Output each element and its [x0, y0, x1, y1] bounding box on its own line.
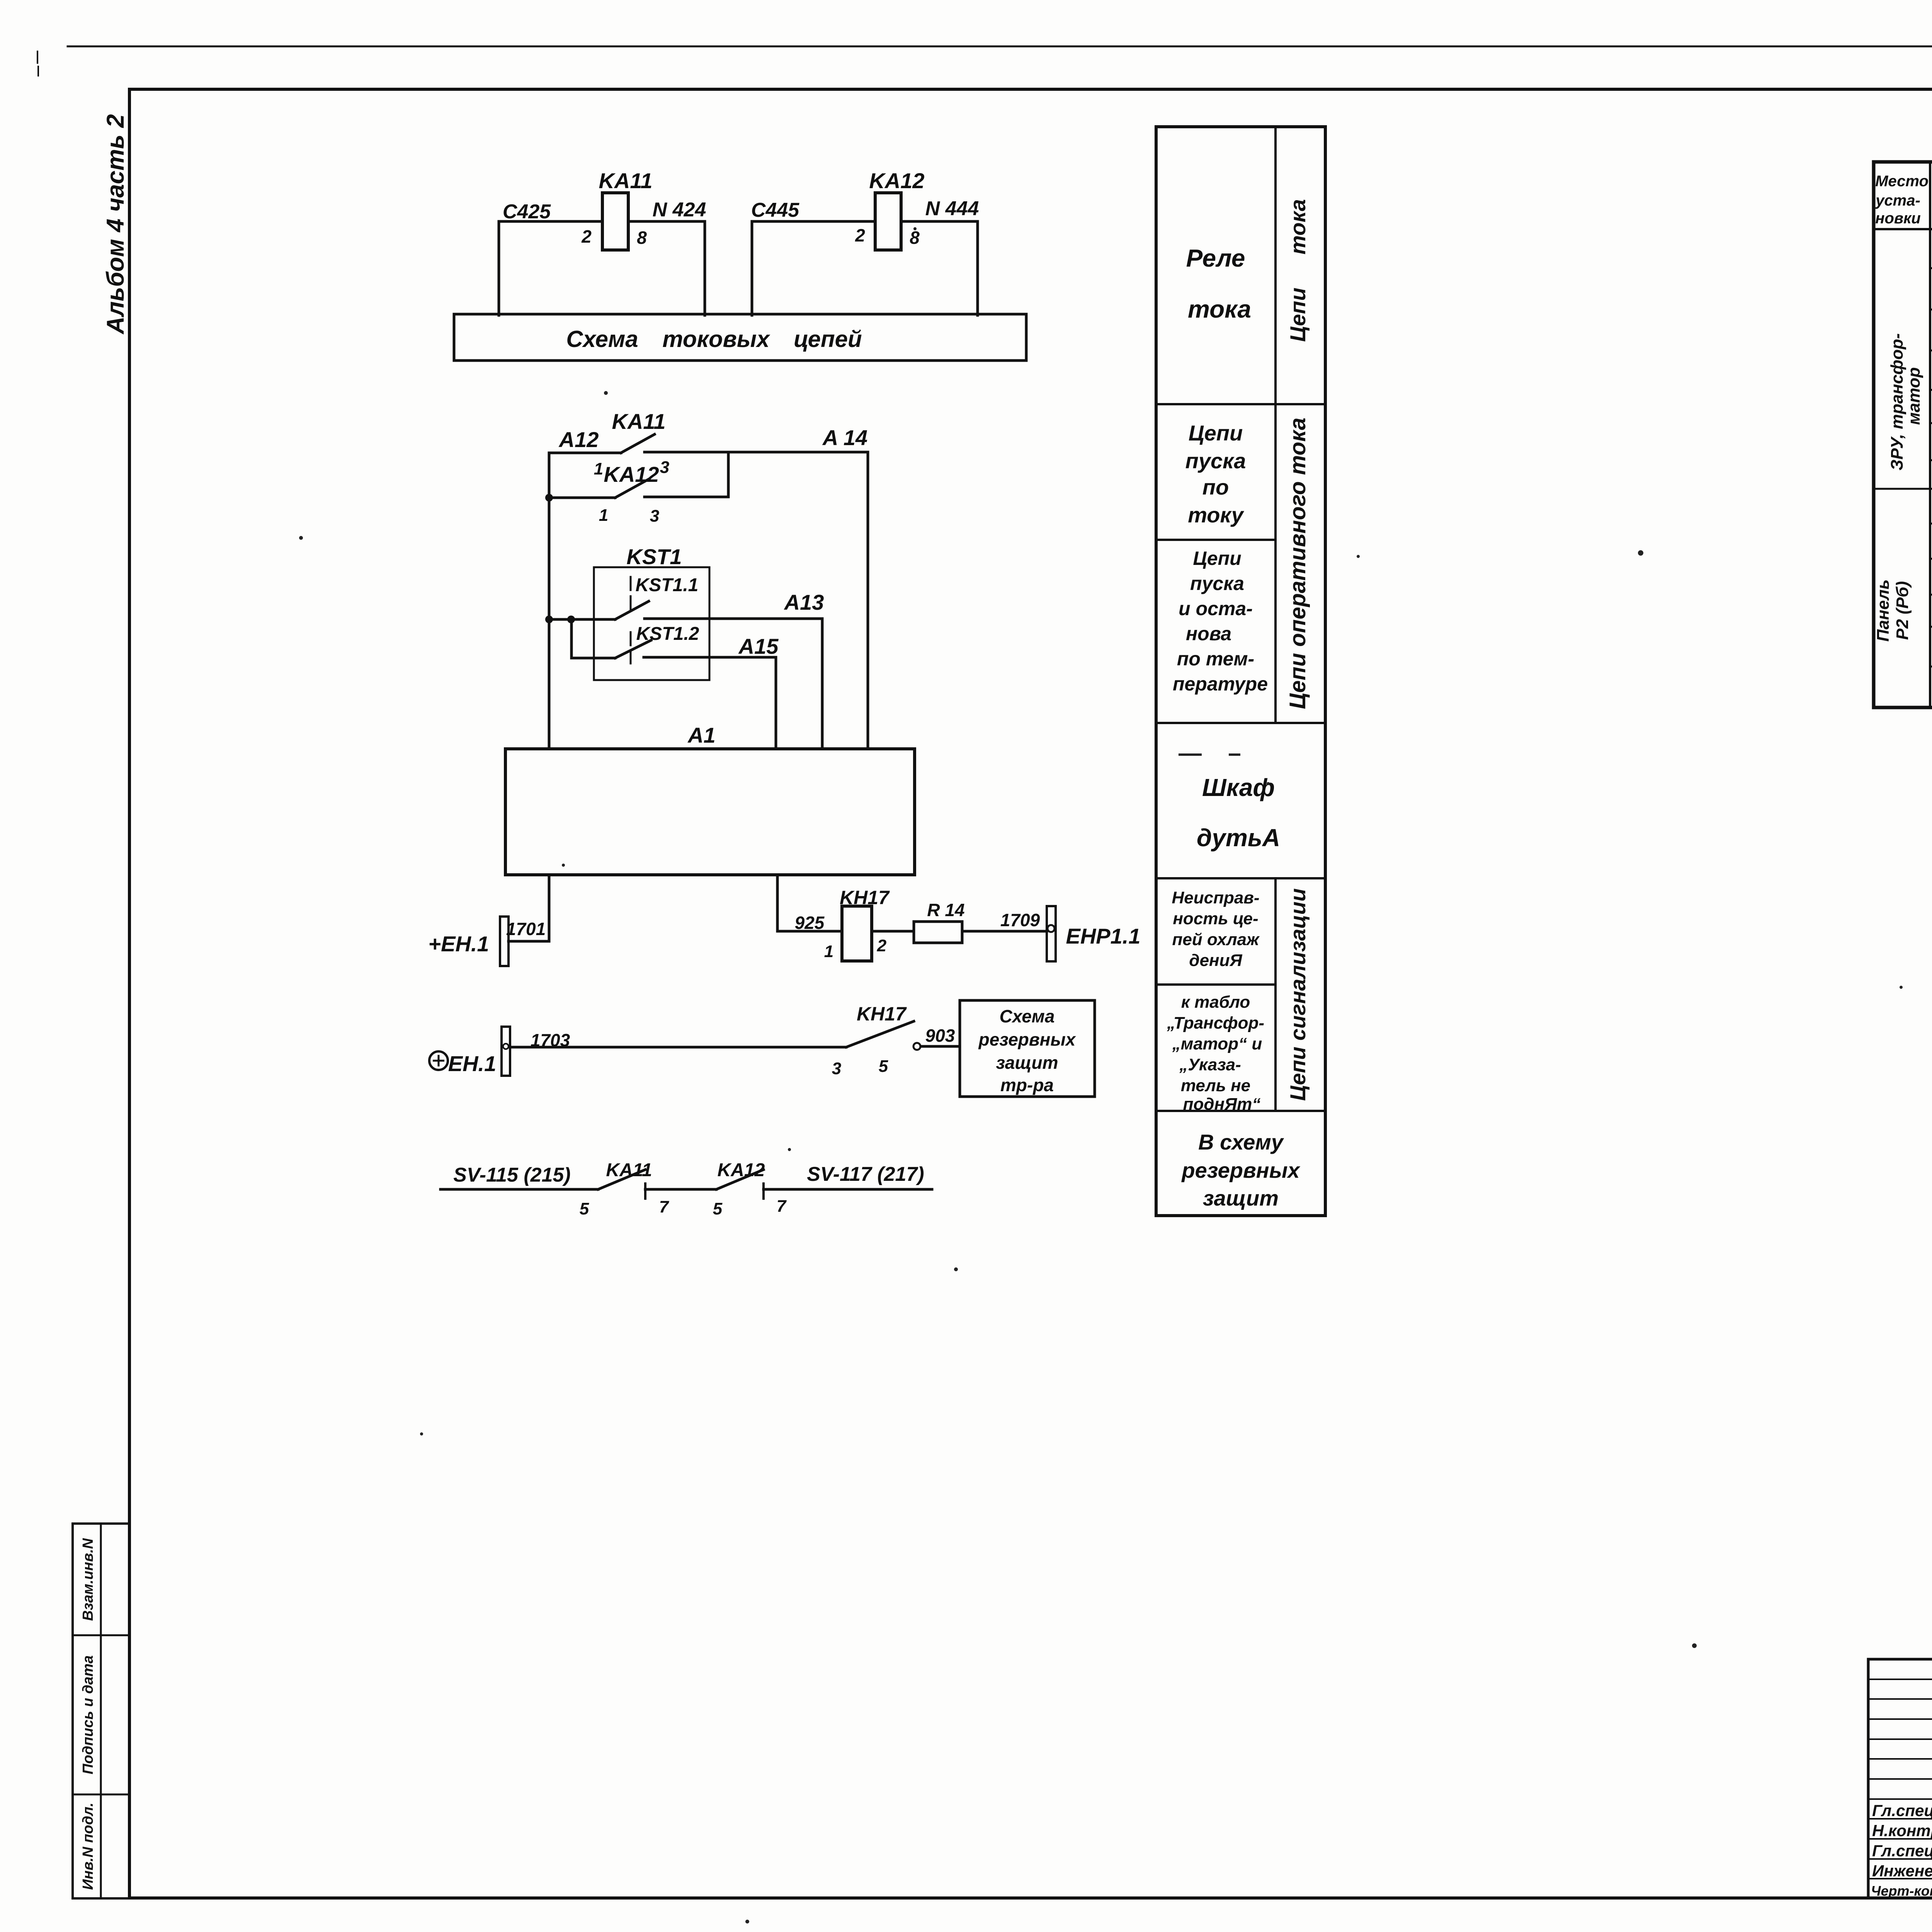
thermal device KST1 outline — [594, 567, 709, 680]
svg-text:тр-ра: тр-ра — [1000, 1075, 1054, 1095]
punch marks — [37, 51, 38, 63]
svg-text:8: 8 — [637, 228, 647, 248]
svg-text:матор: матор — [1905, 367, 1923, 425]
svg-text:Р2 (Рб): Р2 (Рб) — [1893, 581, 1912, 640]
svg-text:2: 2 — [581, 226, 592, 247]
wire KA11 coil to N424 — [628, 220, 705, 223]
svg-text:7: 7 — [777, 1197, 787, 1216]
wire SV-115 — [440, 1188, 598, 1191]
wire C425 to KA11 coil — [499, 220, 602, 223]
svg-text:пуска: пуска — [1185, 449, 1246, 473]
contact KST1.1 blade — [615, 601, 649, 619]
svg-text:A13: A13 — [784, 590, 824, 614]
wire A13 vertical — [821, 619, 824, 749]
wire A1 down right — [776, 875, 779, 931]
svg-text:KH17: KH17 — [857, 1003, 907, 1025]
junction node — [567, 616, 575, 623]
svg-text:Н.контр.: Н.контр. — [1872, 1821, 1932, 1840]
svg-text:N 424: N 424 — [653, 199, 706, 221]
terminal EHP1.1 — [1047, 906, 1056, 961]
svg-text:Схема: Схема — [1000, 1006, 1055, 1026]
resistor R14 — [914, 922, 962, 943]
svg-text:току: току — [1188, 503, 1244, 527]
wire C445 to KA12 coil — [752, 220, 875, 223]
svg-text:Взам.инв.N: Взам.инв.N — [80, 1538, 96, 1621]
svg-text:1: 1 — [599, 506, 608, 525]
contact KA12 blade — [615, 479, 649, 498]
link KST1.2 dashed — [630, 632, 632, 663]
terminal EH.1 — [502, 1027, 510, 1076]
svg-text:5: 5 — [879, 1057, 888, 1076]
svg-text:903: 903 — [925, 1026, 955, 1046]
svg-text:Цепи оперативного тока: Цепи оперативного тока — [1285, 418, 1310, 709]
svg-text:Инв.N подл.: Инв.N подл. — [80, 1803, 96, 1890]
svg-text:„матор“ и: „матор“ и — [1172, 1034, 1262, 1053]
svg-text:и оста-: и оста- — [1179, 598, 1253, 619]
contact KH17 fixed point — [913, 1043, 920, 1050]
svg-text:SV-117 (217): SV-117 (217) — [807, 1163, 924, 1185]
svg-text:Гл.спец.: Гл.спец. — [1872, 1801, 1932, 1820]
svg-text:поднЯт“: поднЯт“ — [1183, 1095, 1261, 1114]
svg-text:EHP1.1: EHP1.1 — [1066, 924, 1141, 948]
svg-text:KST1.1: KST1.1 — [636, 575, 699, 595]
svg-text:KA11: KA11 — [599, 168, 652, 193]
svg-text:2: 2 — [855, 225, 865, 245]
wire 903 — [921, 1045, 960, 1048]
svg-text:защит: защит — [996, 1053, 1058, 1073]
svg-text:Панель: Панель — [1874, 579, 1893, 641]
wire KST1.2 to A15 — [644, 656, 776, 659]
svg-text:KST1.2: KST1.2 — [636, 624, 699, 644]
svg-text:3: 3 — [832, 1059, 841, 1078]
svg-text:тель не: тель не — [1181, 1076, 1250, 1095]
svg-text:Черт-конст.: Черт-конст. — [1871, 1883, 1932, 1899]
wire drop N444 — [976, 221, 979, 315]
svg-text:7: 7 — [659, 1197, 670, 1216]
svg-text:Неисправ-: Неисправ- — [1172, 888, 1259, 907]
svg-text:пуска: пуска — [1190, 573, 1244, 594]
svg-text:Шкаф: Шкаф — [1202, 774, 1275, 801]
svg-text:925: 925 — [795, 913, 825, 933]
svg-text:SV-115 (215): SV-115 (215) — [453, 1164, 571, 1186]
contact KST1.2 blade — [615, 640, 651, 658]
wire KA12 coil to N444 — [901, 220, 978, 223]
svg-text:по: по — [1202, 475, 1229, 499]
svg-text:нова: нова — [1186, 623, 1231, 645]
svg-text:1: 1 — [594, 459, 603, 478]
wire bus to KST1.1 — [549, 618, 615, 621]
svg-text:дутьА: дутьА — [1197, 824, 1280, 852]
box current circuits scheme — [454, 314, 1026, 361]
svg-text:5: 5 — [713, 1199, 723, 1218]
svg-text:Подпись и дата: Подпись и дата — [80, 1655, 96, 1774]
wire drop C445 — [751, 221, 753, 315]
svg-text:дениЯ: дениЯ — [1189, 951, 1242, 970]
wire branch down to KST1.2 — [570, 619, 573, 658]
svg-text:KA12: KA12 — [869, 168, 924, 193]
svg-text:защит: защит — [1203, 1186, 1279, 1210]
svg-text:пературе: пературе — [1173, 673, 1268, 695]
svg-text:3: 3 — [660, 458, 669, 477]
svg-text:новки: новки — [1875, 210, 1920, 227]
top border line — [68, 46, 1932, 48]
svg-text:KA12: KA12 — [718, 1160, 765, 1180]
svg-text:KH17: KH17 — [840, 887, 890, 908]
box reserve protection scheme — [960, 1000, 1095, 1097]
svg-text:2: 2 — [877, 936, 887, 955]
svg-text:KA11: KA11 — [606, 1160, 652, 1180]
svg-text:3: 3 — [650, 507, 659, 526]
wire to terminal EH.1 — [509, 940, 549, 943]
svg-text:„Указа-: „Указа- — [1179, 1055, 1241, 1074]
terminal +EH.1 — [500, 917, 509, 966]
svg-text:1709: 1709 — [1000, 910, 1040, 930]
contact KH17 blade — [846, 1021, 914, 1047]
wire KST1.1 to A13 — [645, 617, 822, 620]
relay coil KH17 — [842, 906, 872, 961]
svg-text:Цепи сигнализации: Цепи сигнализации — [1286, 888, 1310, 1101]
svg-text:Схема токовых цепей: Схема токовых цепей — [566, 326, 862, 352]
svg-text:к табло: к табло — [1181, 993, 1250, 1012]
apparatus table — [1874, 162, 1932, 707]
svg-text:KA12: KA12 — [604, 462, 659, 486]
svg-text:+EH.1: +EH.1 — [428, 932, 489, 956]
svg-text:резервных: резервных — [1181, 1158, 1301, 1182]
svg-text:KST1: KST1 — [626, 544, 682, 569]
contact KA11 blade — [621, 434, 655, 453]
wire R14 to 1709 — [962, 930, 1047, 933]
contact KA11 blade — [598, 1170, 645, 1189]
svg-text:Цепи тока: Цепи тока — [1286, 199, 1310, 342]
border frame — [129, 88, 1932, 91]
svg-text:EH.1: EH.1 — [448, 1051, 497, 1076]
wire SV-117 — [764, 1188, 932, 1191]
blower cabinet A1 — [505, 749, 915, 875]
title block — [1868, 1658, 1932, 1661]
wire 1703 — [510, 1046, 846, 1049]
contact KA11 tick — [644, 1184, 646, 1199]
wire A14 vertical — [867, 452, 869, 749]
svg-text:A1: A1 — [687, 723, 716, 747]
svg-text:„Трансфор-: „Трансфор- — [1167, 1014, 1264, 1032]
svg-text:Цепи: Цепи — [1193, 548, 1241, 569]
wire drop N424 — [704, 221, 706, 315]
wire to KST1.2 — [571, 657, 615, 660]
wire A1 down left — [548, 875, 551, 941]
svg-text:A12: A12 — [558, 427, 599, 452]
junction node — [545, 494, 553, 502]
svg-text:A15: A15 — [738, 634, 779, 658]
svg-text:Альбом 4 часть 2: Альбом 4 часть 2 — [102, 114, 129, 335]
svg-text:C445: C445 — [751, 199, 799, 221]
left service strip — [73, 1524, 129, 1898]
svg-text:резервных: резервных — [978, 1029, 1077, 1049]
svg-text:по тем-: по тем- — [1177, 648, 1254, 670]
svg-text:Цепи: Цепи — [1189, 421, 1243, 445]
wire A12 bus top — [549, 452, 621, 454]
svg-text:Место: Место — [1875, 173, 1929, 190]
wire KA12 branch up — [727, 453, 730, 497]
wire drop C425 — [498, 221, 500, 315]
svg-text:1: 1 — [824, 942, 833, 961]
svg-text:уста-: уста- — [1875, 192, 1920, 209]
wire A15 vertical — [775, 657, 777, 749]
contact KA12 tick — [762, 1184, 765, 1199]
link KST1.1 dashed — [630, 577, 632, 611]
wire left bus vertical — [548, 453, 551, 749]
svg-text:C425: C425 — [503, 201, 551, 223]
wire to A14 corner — [645, 451, 868, 454]
junction node — [545, 616, 553, 623]
svg-text:Гл.спец.: Гл.спец. — [1872, 1842, 1932, 1860]
relay coil KA12 — [875, 193, 901, 250]
relay coil KA11 — [602, 193, 628, 250]
wire KA12 branch return — [645, 496, 728, 498]
svg-text:5: 5 — [580, 1199, 589, 1218]
svg-text:пей охлаж: пей охлаж — [1172, 930, 1260, 949]
wire KA12 branch — [549, 497, 615, 499]
svg-text:KA11: KA11 — [612, 409, 665, 434]
terminal circle — [1048, 925, 1054, 932]
svg-text:R 14: R 14 — [927, 900, 964, 920]
svg-text:A 14: A 14 — [822, 425, 867, 450]
wire 925 to KH17 — [777, 930, 842, 933]
wire KH17 to R14 — [872, 930, 914, 933]
svg-text:1703: 1703 — [531, 1030, 570, 1050]
function column table — [1156, 127, 1325, 1216]
svg-text:N 444: N 444 — [925, 197, 979, 220]
svg-text:8: 8 — [910, 228, 920, 248]
svg-text:ность це-: ность це- — [1173, 909, 1258, 928]
polarity symbol EH.1 — [429, 1051, 448, 1070]
svg-text:1701: 1701 — [506, 919, 546, 939]
svg-text:В схему: В схему — [1198, 1130, 1284, 1154]
contact KA12 blade — [716, 1170, 764, 1189]
svg-text:ЗРУ, трансфор-: ЗРУ, трансфор- — [1888, 333, 1906, 470]
wire between contacts — [645, 1188, 716, 1191]
svg-text:тока: тока — [1188, 295, 1251, 323]
svg-text:Инженер: Инженер — [1872, 1862, 1932, 1880]
svg-text:Реле: Реле — [1186, 244, 1245, 272]
